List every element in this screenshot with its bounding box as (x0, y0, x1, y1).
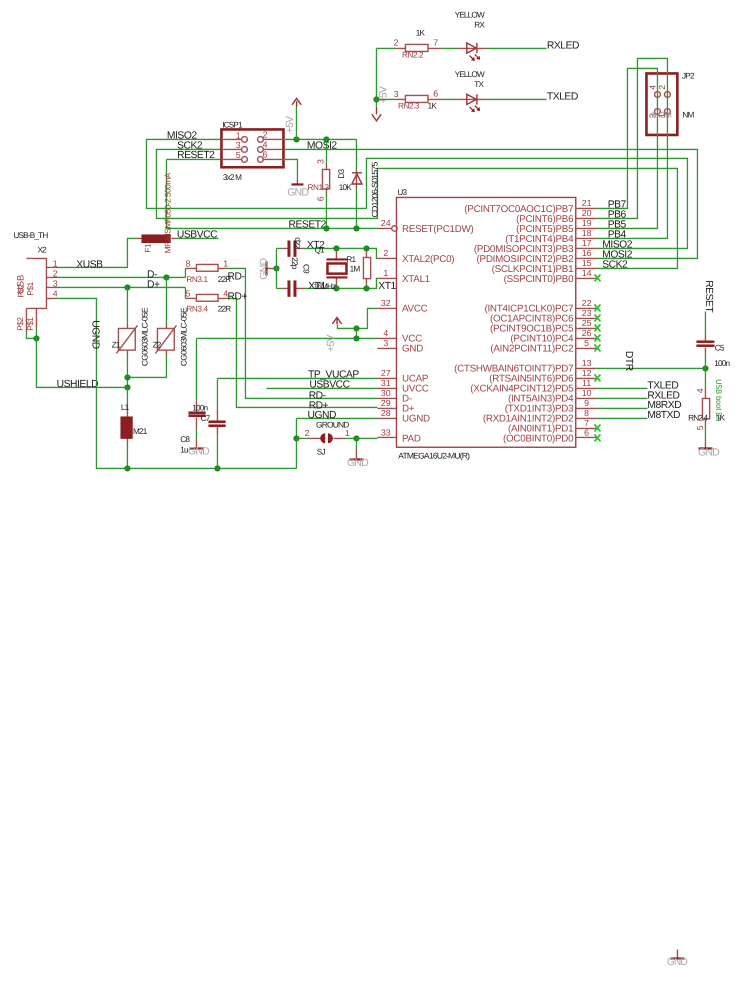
svg-text:5: 5 (186, 289, 191, 299)
svg-text:USB boot En: USB boot En (714, 379, 723, 421)
svg-text:CG0603MLC-05E: CG0603MLC-05E (179, 307, 188, 366)
svg-text:2x2M: 2x2M (652, 111, 672, 120)
junction C9 gnd mid (273, 265, 279, 271)
wire LED RX to RXLED label (486, 47, 546, 49)
capacitor C9 22p (XT2 side) (276, 240, 303, 256)
junction VCC row tap (353, 335, 359, 341)
svg-text:19: 19 (582, 218, 592, 228)
pin 28 UGND U3 (377, 408, 430, 425)
pin 27 UCAP U3 (377, 368, 428, 385)
svg-text:P$1: P$1 (26, 281, 35, 295)
svg-text:RN2.3: RN2.3 (398, 102, 420, 111)
svg-text:Z2: Z2 (153, 341, 162, 350)
svg-text:8: 8 (186, 259, 191, 269)
wire UGND drop to SJ (295, 418, 297, 438)
pin 18 (T1PCINT4)PB4 U3 (505, 228, 596, 245)
svg-text:D+: D+ (147, 279, 160, 290)
svg-text:RN3.1: RN3.1 (186, 275, 208, 284)
wire PB6 net to JP2 pin / PB4 net (596, 58, 667, 238)
wire PB7 net to JP2 pin / PB5 net (596, 68, 657, 228)
LED TX (yellow) (457, 94, 486, 112)
varistor Z2 CG0603MLC-05E (127, 277, 176, 377)
svg-text:CG0603MLC-05E: CG0603MLC-05E (140, 307, 149, 366)
svg-text:7: 7 (433, 38, 438, 48)
wire AVCC jog to +5V arrow (337, 308, 377, 328)
svg-text:USB-B_TH: USB-B_TH (13, 231, 48, 240)
svg-text:6: 6 (316, 196, 326, 201)
wire riser to rail (295, 438, 297, 468)
junction SJ left / rail riser (293, 435, 299, 441)
pin 32 AVCC U3 (377, 298, 427, 315)
ground: PAD GND (347, 438, 369, 468)
no-connect pin 7 (594, 424, 600, 431)
svg-text:2: 2 (394, 38, 399, 48)
svg-text:MOSI2: MOSI2 (307, 140, 338, 151)
ground: C9 GND tap (258, 258, 276, 280)
wire TXLED net from PD5 (596, 387, 647, 389)
svg-text:ICSP1: ICSP1 (222, 120, 243, 129)
+5V supply arrow (down) (372, 107, 381, 121)
svg-text:YELLOW: YELLOW (455, 70, 485, 79)
svg-text:D3: D3 (337, 168, 346, 178)
svg-text:5: 5 (236, 150, 241, 160)
pin 12 (RTSAIN5INT6)PD6 U3 (489, 368, 596, 385)
junction +5V / RN2.3 tap (373, 96, 379, 102)
svg-text:P$2: P$2 (16, 317, 25, 331)
svg-text:RN3.4: RN3.4 (186, 305, 208, 314)
resistor RN2.2 1K (396, 44, 441, 51)
svg-text:RESET(PC1DW): RESET(PC1DW) (402, 224, 474, 235)
svg-text:1: 1 (236, 130, 241, 140)
connector ICSP1 3x2 (221, 129, 283, 167)
wire UGND net X2 pin4 to rail (55, 298, 296, 468)
svg-text:3: 3 (316, 159, 326, 164)
svg-text:TXLED: TXLED (547, 92, 578, 103)
svg-text:1K: 1K (416, 28, 426, 37)
resistor RN3.4 22R (185, 287, 226, 301)
svg-text:+5V: +5V (378, 86, 390, 103)
junction shield junction (33, 335, 39, 341)
junction D3 to RESET2 (353, 225, 359, 231)
+5V supply arrow (AVCC) (332, 317, 341, 324)
svg-text:P$1: P$1 (26, 317, 35, 331)
svg-text:USBVCC: USBVCC (309, 380, 350, 391)
wire XUSB net to F1 (55, 238, 136, 267)
svg-text:XUSB: XUSB (76, 260, 103, 271)
wire PAD pin wire (356, 437, 377, 439)
svg-text:24: 24 (381, 218, 391, 228)
junction AVCC/+5V tap (353, 325, 359, 331)
svg-text:4: 4 (53, 289, 58, 299)
svg-text:15: 15 (582, 258, 592, 268)
svg-text:16: 16 (582, 248, 592, 258)
svg-text:GND: GND (287, 186, 309, 198)
pin 13 (CTSHWBAIN6TOINT7)PD7 U3 (454, 358, 596, 375)
svg-text:1K: 1K (428, 102, 438, 111)
svg-text:13: 13 (582, 358, 592, 368)
capacitor C5 100n (696, 311, 714, 368)
svg-text:100n: 100n (192, 403, 208, 412)
junction C8 to rail (214, 465, 220, 471)
junction +5V arrow tap (293, 136, 299, 142)
wire RXLED row from +5V corner to RN2.2 (376, 47, 396, 49)
svg-text:C8: C8 (180, 435, 190, 444)
wire +5V VCC row (196, 337, 377, 339)
svg-text:8: 8 (584, 408, 589, 418)
junction Z2 join Z1 (124, 374, 130, 380)
svg-text:RN2.2: RN2.2 (402, 50, 424, 59)
pin 24 RESET(PC1DW) U3 (377, 218, 473, 235)
pin 31 UVCC U3 (377, 378, 428, 395)
wire SCK2 net chip to ICSP (156, 149, 677, 268)
resistor RN1.3 10K (322, 139, 329, 228)
connector JP2 2x2 (646, 73, 677, 135)
JP2 pin pads (655, 92, 671, 115)
pin 11 (XCKAIN4PCINT12)PD5 U3 (470, 378, 596, 395)
pin 14 (SSPCINT0)PB0 U3 (504, 268, 597, 285)
svg-text:+5V: +5V (325, 335, 337, 352)
svg-text:31: 31 (381, 378, 391, 388)
svg-text:5: 5 (584, 338, 589, 348)
svg-text:10: 10 (582, 388, 592, 398)
svg-text:25: 25 (582, 318, 592, 328)
junction D- to Z2 (163, 274, 169, 280)
junction USHIELD join (124, 384, 130, 390)
fuse F1 MF-MSMF050-2 (136, 234, 176, 243)
wire M8RXD net from PD3 (596, 407, 647, 409)
svg-text:Q1: Q1 (315, 246, 326, 255)
wire XT2 net to XTAL2 pin (303, 248, 377, 258)
svg-text:17: 17 (582, 238, 592, 248)
wire RD- net to chip D- pin (226, 268, 377, 398)
svg-text:RXLED: RXLED (547, 40, 579, 51)
svg-text:PAD: PAD (402, 433, 421, 444)
svg-text:1: 1 (223, 259, 228, 269)
svg-text:1: 1 (383, 268, 388, 278)
svg-text:3: 3 (383, 338, 388, 348)
svg-text:GND: GND (667, 956, 688, 968)
wire RXLED net from PD4 (596, 397, 647, 399)
pin 7 (AIN0INT1)PD1 U3 (508, 418, 596, 435)
wire UGND net to chip pin (296, 417, 377, 419)
wire RN2.2 to LED RX (441, 47, 457, 49)
no-connect pin 5 (594, 344, 600, 351)
resistor RN3.1 22R (185, 264, 226, 277)
junction crystal bottom (333, 285, 339, 291)
svg-text:RD-: RD- (228, 271, 245, 282)
svg-text:UGND: UGND (89, 320, 100, 349)
svg-text:TX: TX (474, 80, 484, 89)
svg-text:AVCC: AVCC (402, 304, 428, 315)
wire D- net (55, 276, 185, 278)
pin 17 (PD0MISOPCINT3)PB3 U3 (474, 238, 597, 255)
svg-text:7: 7 (584, 418, 589, 428)
svg-text:2: 2 (263, 130, 268, 140)
svg-text:NM: NM (682, 110, 694, 119)
pin 20 (PCINT6)PB6 U3 (516, 208, 596, 225)
svg-text:GND: GND (188, 446, 210, 458)
wire RESET2 stub into ICSP pin 5 (166, 158, 221, 160)
ground: C7 GND (188, 446, 210, 458)
pin 29 D+ U3 (377, 398, 414, 415)
svg-text:3x2 M: 3x2 M (223, 173, 242, 182)
svg-text:6: 6 (263, 150, 268, 160)
svg-text:30: 30 (381, 388, 391, 398)
ground: ICSP pin 6 GND (283, 159, 309, 198)
capacitor C9 22p (XT1 side) (276, 280, 303, 296)
svg-text:4: 4 (263, 140, 268, 150)
op-amp U3 ATMEGA16U2 body (396, 197, 575, 447)
svg-text:Z1: Z1 (112, 341, 121, 350)
svg-text:U3: U3 (397, 188, 407, 197)
svg-text:P$2: P$2 (16, 283, 25, 297)
wire +5V arrow shaft to row (295, 106, 297, 139)
svg-text:4: 4 (383, 328, 388, 338)
wire C9 gnd riser (275, 248, 277, 288)
svg-text:RESET: RESET (703, 280, 714, 313)
wire TXLED row from +5V junction to RN2.3 (376, 98, 396, 100)
svg-text:USBVCC: USBVCC (177, 230, 218, 241)
wire TP_VUCAP net to UCAP pin (217, 377, 377, 379)
svg-text:11: 11 (582, 378, 591, 388)
svg-text:C9: C9 (302, 264, 311, 274)
pin 30 D- U3 (377, 388, 411, 405)
svg-text:RN1.3: RN1.3 (308, 183, 330, 192)
junction RN1.3 top tap (323, 136, 329, 142)
junction R1 bottom (363, 285, 369, 291)
svg-text:14: 14 (582, 268, 592, 278)
svg-text:4: 4 (647, 85, 657, 90)
svg-text:GND: GND (258, 258, 270, 280)
svg-text:GND: GND (698, 446, 720, 458)
svg-text:XTAL2(PC0): XTAL2(PC0) (402, 254, 454, 265)
wire LED TX to TXLED label (486, 98, 546, 100)
svg-text:RX: RX (474, 20, 485, 29)
svg-text:18: 18 (582, 228, 592, 238)
pin 8 (RXD1AIN1INT2)PD2 U3 (483, 408, 597, 425)
svg-text:ATMEGA16U2-MU(R): ATMEGA16U2-MU(R) (398, 451, 470, 460)
svg-text:X2: X2 (38, 246, 48, 255)
pin 9 (TXD1INT3)PD3 U3 (505, 398, 597, 415)
pin 26 (PCINT10)PC4 U3 (510, 328, 596, 345)
svg-text:M21: M21 (133, 427, 148, 436)
svg-text:22: 22 (582, 298, 592, 308)
svg-text:RESET2: RESET2 (177, 150, 215, 161)
pin 5 (AIN2PCINT11)PC2 U3 (490, 338, 596, 355)
svg-text:YELLOW: YELLOW (455, 10, 485, 19)
wire D+ net (55, 286, 185, 288)
pin 4 VCC U3 (377, 328, 422, 345)
svg-text:R1: R1 (346, 255, 356, 264)
resistor R1 1M (363, 248, 370, 288)
pin 6 (OC0BINT0)PD0 U3 (503, 428, 596, 445)
svg-text:F1: F1 (144, 243, 153, 253)
svg-text:22R: 22R (218, 305, 232, 314)
svg-text:1: 1 (345, 428, 350, 438)
pin 1 XTAL1 U3 (377, 268, 430, 285)
no-connect pin 22 (594, 304, 600, 311)
solder jumper SJ (296, 433, 356, 443)
no-connect pin 23 (594, 314, 600, 321)
wire +5V vertical feeding RN2.2/RN2.3 (375, 48, 377, 106)
svg-text:DTR: DTR (623, 351, 634, 371)
svg-text:22p: 22p (293, 237, 302, 250)
wire MISO2 net chip to ICSP (146, 139, 687, 248)
no-connect pin 12 (594, 374, 600, 381)
junction RN1.3 to RESET2 (323, 225, 329, 231)
svg-text:6: 6 (433, 89, 438, 99)
svg-text:GND: GND (347, 457, 369, 469)
wire MOSI2 net chip to ICSP (283, 149, 697, 258)
pin 22 (INT4ICP1CLK0)PC7 U3 (484, 298, 596, 315)
svg-text:22p: 22p (290, 257, 299, 270)
svg-text:21: 21 (582, 198, 592, 208)
svg-text:M8TXD: M8TXD (647, 410, 680, 421)
svg-text:RESET2: RESET2 (289, 220, 327, 231)
wire RD+ net to chip D+ pin (226, 298, 377, 407)
svg-text:C5: C5 (715, 343, 725, 352)
svg-text:SCK2: SCK2 (602, 260, 628, 271)
junction SJ to PAD (353, 435, 359, 441)
inductor L1 (120, 387, 132, 468)
svg-text:9: 9 (584, 398, 589, 408)
svg-text:2: 2 (305, 428, 310, 438)
svg-text:(SSPCINT0)PB0: (SSPCINT0)PB0 (504, 274, 575, 285)
svg-text:26: 26 (582, 328, 592, 338)
pin 33 PAD U3 (377, 428, 420, 445)
svg-text:UGND: UGND (402, 414, 430, 425)
wire RN2.3 to LED TX (441, 98, 457, 100)
svg-text:5: 5 (695, 425, 705, 430)
svg-text:(OC0BINT0)PD0: (OC0BINT0)PD0 (503, 433, 574, 444)
svg-text:100n: 100n (714, 359, 730, 368)
svg-text:10K: 10K (339, 183, 353, 192)
svg-text:27: 27 (381, 368, 391, 378)
capacitor C8 1u (208, 378, 225, 468)
ground: orphan GND bottom right (667, 949, 688, 967)
pin 15 (SCLKPCINT1)PB1 U3 (492, 258, 597, 275)
svg-text:1u: 1u (180, 446, 189, 455)
svg-text:3: 3 (394, 89, 399, 99)
pin 2 XTAL2(PC0) U3 (377, 248, 454, 265)
svg-text:GROUND: GROUND (316, 420, 349, 429)
svg-text:16MHz: 16MHz (314, 282, 337, 291)
svg-text:GND: GND (402, 344, 423, 355)
svg-text:+5V: +5V (284, 116, 296, 133)
svg-text:32: 32 (381, 298, 391, 308)
wire DTR net from PD7 (596, 367, 705, 369)
wire +5V net from ICSP pin 2 (283, 138, 356, 140)
crystal Q1 16MHz (326, 248, 347, 288)
junction L1 to rail (124, 465, 130, 471)
svg-text:3: 3 (236, 140, 241, 150)
resistor RN2.4 1K (702, 368, 709, 448)
junction D+ to Z1 (124, 284, 130, 290)
svg-text:33: 33 (381, 428, 391, 438)
svg-text:UGND: UGND (308, 410, 337, 421)
svg-text:28: 28 (381, 408, 391, 418)
svg-text:2: 2 (383, 248, 388, 258)
svg-text:12: 12 (582, 368, 592, 378)
diode D3 CD1206-S01575 (352, 139, 362, 228)
pin 23 (OC1APCINT8)PC6 U3 (490, 308, 597, 325)
wire USBVCC stub from F1 (176, 237, 218, 239)
wire RESET2 net ICSP to chip pin 24 (166, 159, 377, 228)
svg-text:MF-MSMF050-2 500mA: MF-MSMF050-2 500mA (163, 172, 172, 253)
pin 3 GND U3 (377, 338, 423, 355)
svg-text:XT1: XT1 (378, 281, 396, 292)
wire USHIELD net (36, 338, 127, 387)
svg-text:CD1206-S01575: CD1206-S01575 (371, 161, 380, 217)
svg-text:JP2: JP2 (682, 71, 695, 80)
+5V supply arrow (ICSP) (292, 98, 301, 106)
junction DTR to RESET divider (702, 365, 708, 371)
svg-text:(AIN2PCINT11)PC2: (AIN2PCINT11)PC2 (490, 344, 573, 355)
capacitor C7 100n (188, 338, 205, 447)
pin 19 (PCINT5)PB5 U3 (516, 218, 596, 235)
svg-text:XTAL1: XTAL1 (402, 274, 430, 285)
svg-text:6: 6 (584, 428, 589, 438)
svg-text:29: 29 (381, 398, 391, 408)
svg-text:L1: L1 (121, 403, 130, 412)
svg-text:1M: 1M (350, 264, 361, 273)
ground: RN2.4 GND (698, 446, 720, 458)
svg-text:USHIELD: USHIELD (57, 379, 98, 390)
pin 21 (PCINT7OC0AOC1C)PB7 U3 (464, 198, 596, 215)
svg-text:23: 23 (582, 308, 592, 318)
pin 25 (PCINT9OC1B)PC5 U3 (490, 318, 597, 335)
svg-text:20: 20 (582, 208, 592, 218)
no-connect pin 6 (594, 434, 600, 441)
svg-text:SJ: SJ (317, 448, 326, 457)
LED RX (yellow) (457, 43, 486, 61)
svg-text:RN2.4: RN2.4 (688, 414, 708, 423)
no-connect pin 26 (594, 334, 600, 341)
svg-text:2: 2 (657, 85, 667, 90)
resistor RN2.3 1K (396, 95, 441, 102)
varistor Z1 CG0603MLC-05E (116, 287, 137, 387)
wire shield pins to USHIELD (26, 327, 36, 338)
pin 10 (INT5AIN3)PD4 U3 (508, 388, 596, 405)
junction crystal top (333, 245, 339, 251)
wire M8TXD net from PD2 (596, 417, 647, 419)
connector X2 USB-B outline (26, 258, 55, 331)
junction R1 top (363, 245, 369, 251)
svg-text:4: 4 (695, 388, 705, 393)
no-connect pin 25 (594, 324, 600, 331)
no-connect pin 14 (594, 274, 600, 281)
pin 16 (PDIMOSIPCINT2)PB2 U3 (477, 248, 597, 265)
wire XT1 net to XTAL1 pin (303, 278, 377, 288)
svg-text:RD+: RD+ (228, 292, 248, 303)
wire AVCC drop to VCC row (355, 328, 357, 338)
wire USBVCC net to UVCC pin (266, 387, 377, 389)
